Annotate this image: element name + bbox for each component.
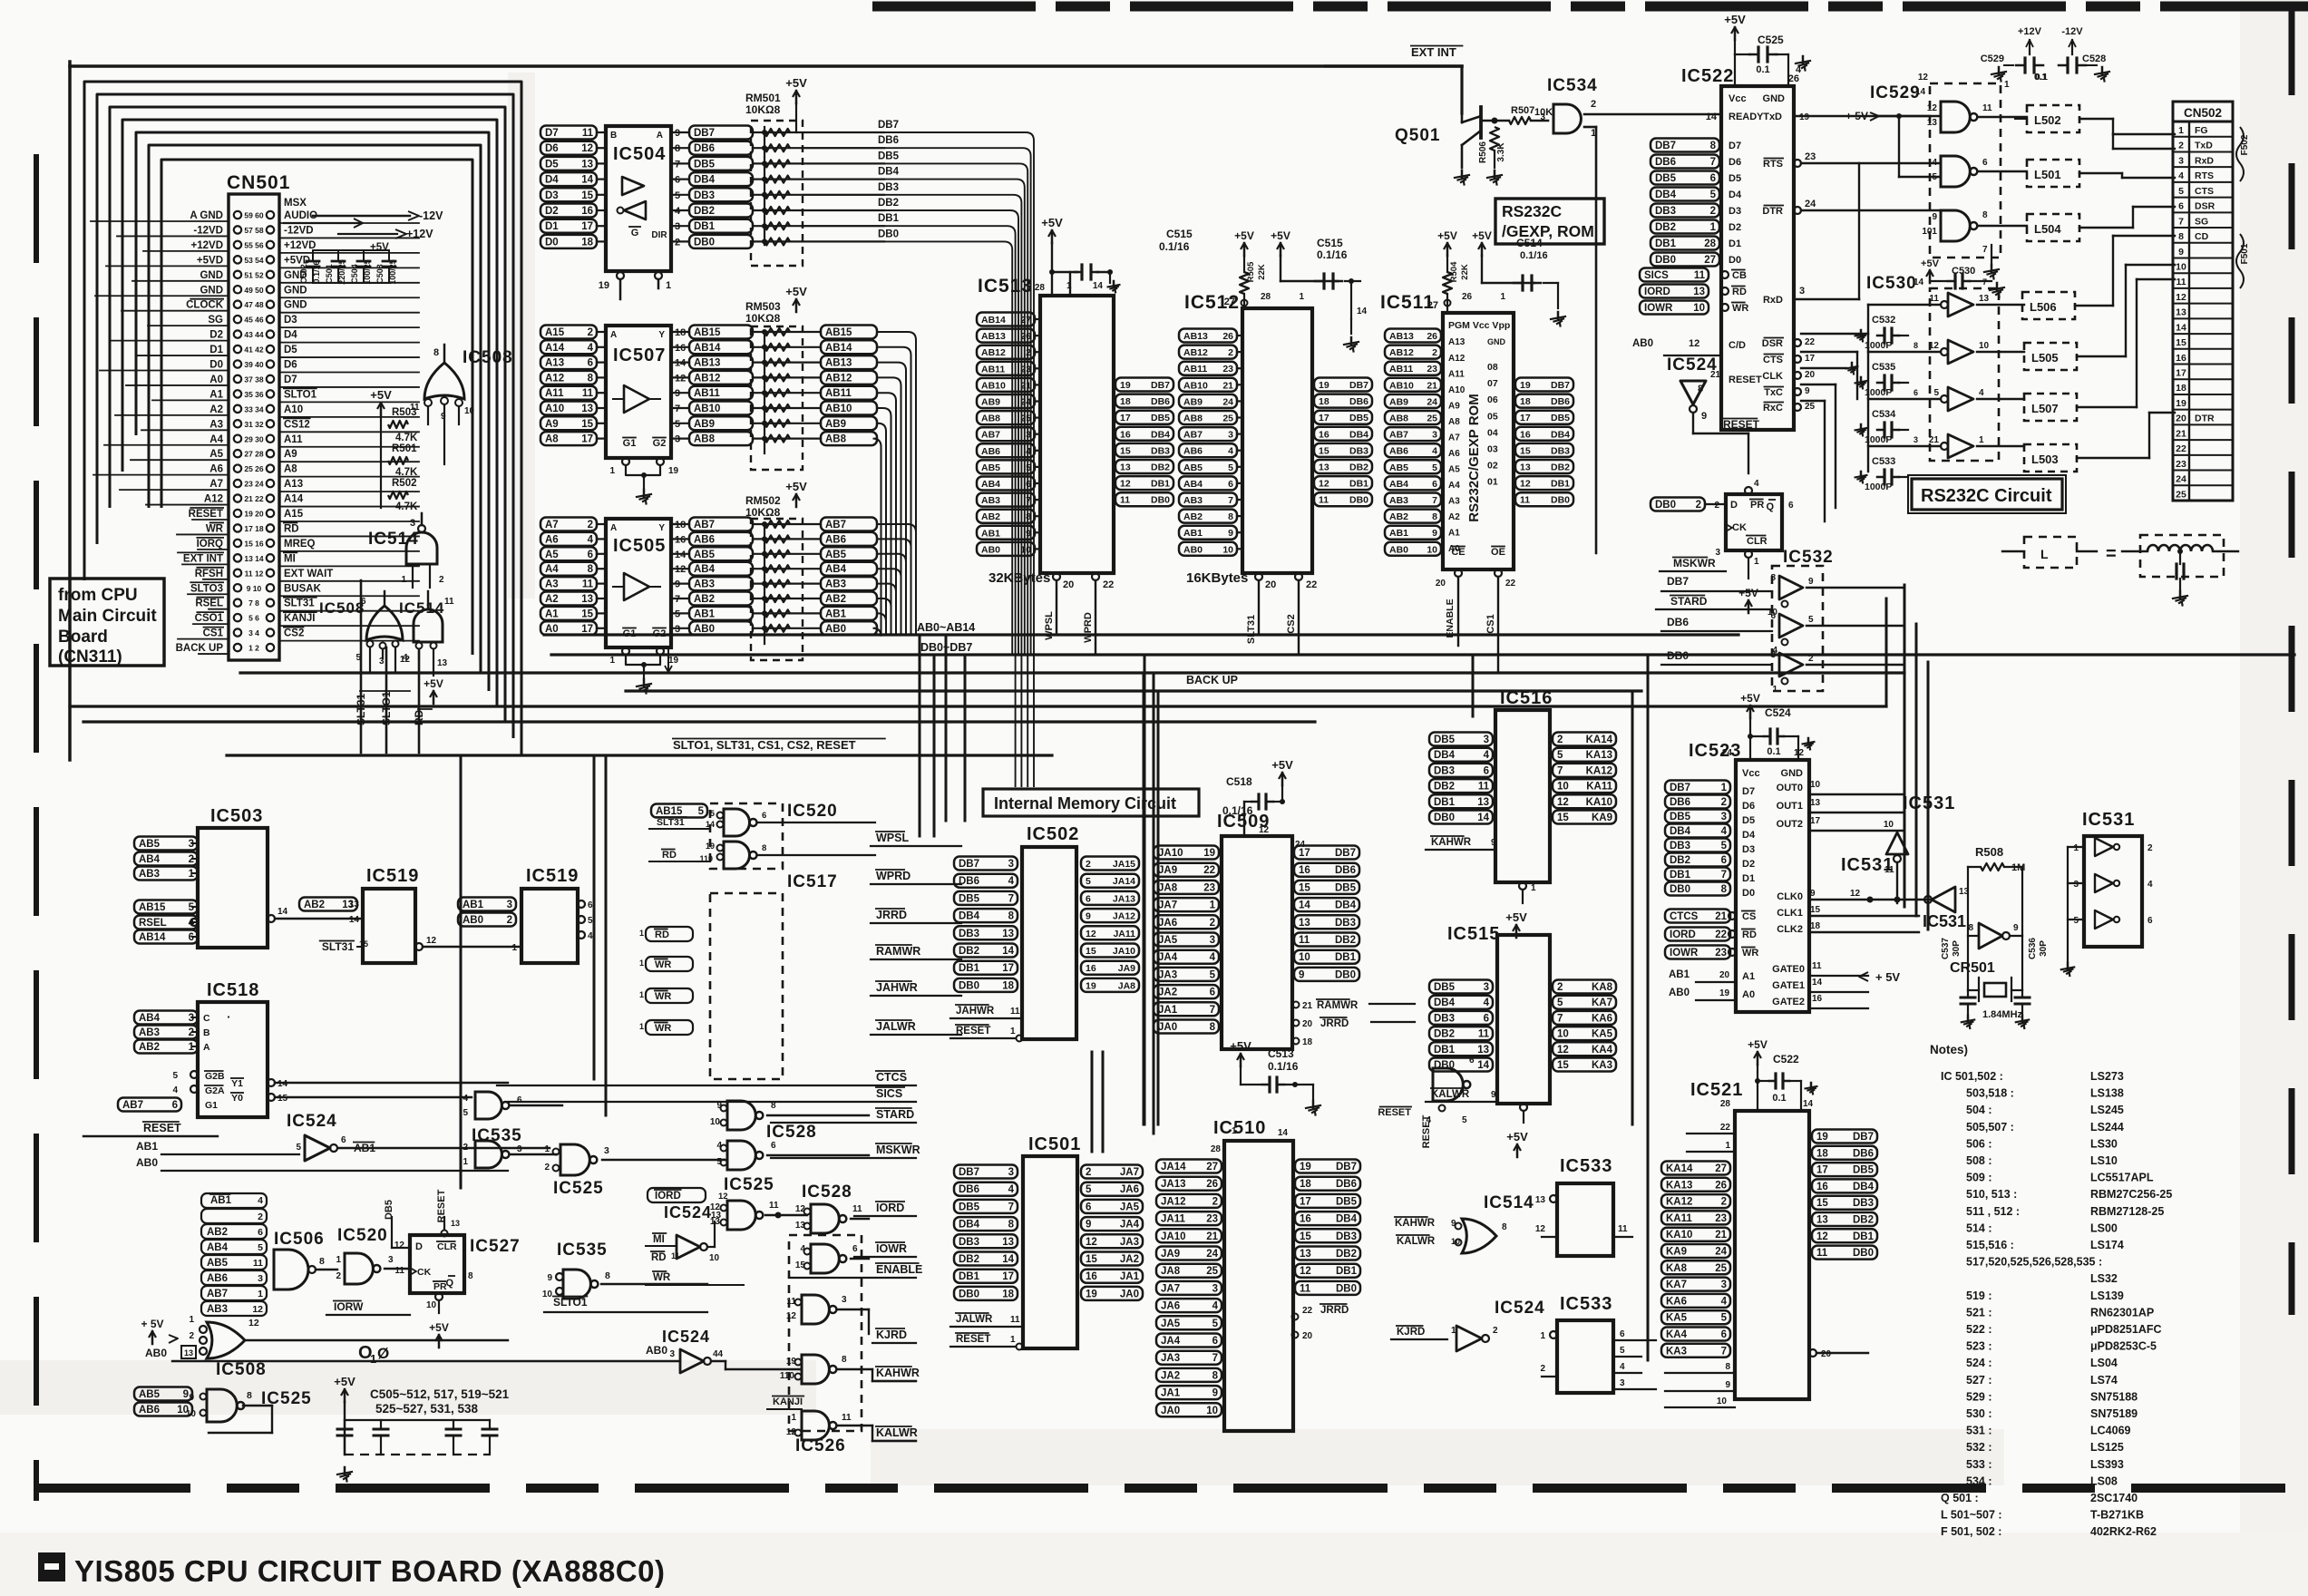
- IC511 pin 17 DB5: [1515, 411, 1573, 424]
- svg-text:21: 21: [1206, 1231, 1218, 1242]
- svg-text:JRRD: JRRD: [1320, 1305, 1349, 1316]
- svg-text:A15: A15: [284, 509, 304, 520]
- svg-text:JA6: JA6: [1158, 918, 1177, 929]
- svg-text:11: 11: [842, 1413, 852, 1423]
- IC513 pin 23 AB11: [977, 362, 1035, 375]
- svg-text:28: 28: [1720, 1099, 1731, 1109]
- svg-text:JAHWR: JAHWR: [956, 1006, 995, 1017]
- svg-text:1: 1: [639, 990, 644, 999]
- svg-text:RESET: RESET: [956, 1026, 990, 1036]
- svg-text:5: 5: [1228, 462, 1233, 473]
- svg-text:5: 5: [698, 806, 705, 817]
- svg-text:IC531: IC531: [1923, 912, 1966, 930]
- svg-text:11: 11: [1299, 935, 1310, 946]
- svg-text:15: 15: [581, 608, 593, 619]
- IC510 pin 5 JA5: [1156, 1316, 1222, 1329]
- svg-text:AB11: AB11: [1389, 364, 1413, 375]
- svg-text:5: 5: [1212, 1319, 1219, 1329]
- IC526 NAND G KAHWR: [802, 1355, 829, 1384]
- svg-text:AB13: AB13: [1183, 331, 1208, 342]
- svg-text:A11: A11: [545, 388, 564, 399]
- svg-text:19: 19: [1300, 1162, 1311, 1173]
- CN502 pin 19: [2173, 394, 2233, 395]
- svg-text:11: 11: [1816, 1248, 1828, 1259]
- svg-text:-12VD: -12VD: [193, 225, 223, 236]
- svg-text:LS125: LS125: [2090, 1441, 2124, 1454]
- svg-text:GATE2: GATE2: [1772, 997, 1805, 1007]
- svg-text:5: 5: [1710, 190, 1717, 200]
- svg-text:110: 110: [780, 1371, 795, 1381]
- svg-text:IC510: IC510: [1213, 1118, 1266, 1138]
- svg-text:JA15: JA15: [1113, 859, 1135, 870]
- svg-text:8: 8: [1228, 511, 1233, 522]
- IC532 buffer 6/5: [1779, 614, 1803, 637]
- IC521 pin 16 DB4: [1812, 1179, 1877, 1192]
- svg-text:1: 1: [258, 1289, 263, 1299]
- IC521 pin 26 KA13: [1661, 1178, 1730, 1192]
- svg-text:21: 21: [1710, 370, 1721, 380]
- IC504 bus transceiver: [606, 126, 671, 271]
- svg-text:8: 8: [1008, 1220, 1015, 1231]
- IC515 pin 2 KA8: [1553, 980, 1616, 994]
- svg-text:+5V: +5V: [785, 76, 807, 90]
- svg-text:1: 1: [1010, 1335, 1016, 1345]
- svg-text:IC507: IC507: [613, 345, 666, 365]
- IC504 pin 15 D3 / 5 DB3: [540, 188, 597, 201]
- svg-text:8: 8: [1210, 1022, 1216, 1033]
- svg-text:26: 26: [1715, 1180, 1727, 1191]
- IC513 pin 21 AB10: [977, 378, 1035, 392]
- svg-text:0.1: 0.1: [1772, 1093, 1786, 1104]
- svg-text:19 20: 19 20: [244, 510, 264, 519]
- CN502 pin 22: [2173, 439, 2233, 441]
- svg-text:AB14: AB14: [981, 315, 1006, 326]
- svg-text:1: 1: [1721, 783, 1728, 793]
- connector CN502: [2173, 102, 2233, 122]
- svg-text:A: A: [657, 131, 663, 141]
- svg-text:9: 9: [1228, 528, 1233, 539]
- scan shading patches: [0, 1360, 816, 1415]
- svg-text:JA9: JA9: [1118, 963, 1135, 974]
- IC509 pin 22 JA9: [1154, 863, 1219, 877]
- svg-text:A3: A3: [545, 579, 559, 590]
- IC509 pin 17 DB7: [1294, 846, 1359, 860]
- IC507 buffer symbol: [624, 385, 649, 413]
- svg-text:IORQ: IORQ: [197, 539, 223, 550]
- svg-text:3: 3: [1721, 812, 1727, 822]
- svg-text:7: 7: [1212, 1353, 1218, 1364]
- svg-text:C513: C513: [1268, 1047, 1294, 1060]
- svg-text:20: 20: [1436, 579, 1446, 589]
- svg-text:1: 1: [639, 929, 644, 938]
- svg-text:D7: D7: [1742, 786, 1755, 797]
- svg-text:4: 4: [172, 1085, 178, 1095]
- IC503 pin 6 AB14: [134, 930, 198, 944]
- svg-text:27: 27: [1224, 297, 1235, 307]
- svg-text:3: 3: [1721, 1280, 1727, 1290]
- svg-text:RD: RD: [284, 523, 299, 534]
- IC510 pin 24 JA9: [1156, 1247, 1222, 1260]
- svg-text:IC534: IC534: [1547, 76, 1598, 95]
- IC511 pin 26 AB13: [1385, 329, 1441, 343]
- IC510 pin 25 JA8: [1156, 1264, 1222, 1278]
- IC509 pin 23 JA8: [1154, 881, 1219, 894]
- svg-text:17: 17: [1816, 1165, 1828, 1176]
- svg-text:6: 6: [2178, 201, 2184, 212]
- IC516 pin 14 DB0: [1429, 811, 1493, 824]
- IC511 pin 8 AB2: [1385, 510, 1441, 523]
- IC521 pin 12 DB1: [1812, 1229, 1877, 1242]
- svg-text:02: 02: [1487, 461, 1498, 472]
- IC522 pin 27 DB0: [1651, 253, 1719, 267]
- svg-text:5: 5: [2178, 186, 2184, 197]
- svg-text:GND: GND: [1781, 768, 1804, 779]
- IC513 pin 6 AB4: [977, 477, 1035, 491]
- svg-text:3: 3: [842, 1295, 847, 1305]
- svg-text:5: 5: [1933, 388, 1939, 398]
- svg-text:IC506: IC506: [274, 1230, 325, 1249]
- svg-text:19: 19: [1203, 848, 1215, 859]
- svg-text:AB0: AB0: [981, 544, 1000, 555]
- svg-text:LS244: LS244: [2090, 1121, 2124, 1134]
- svg-text:2: 2: [1591, 99, 1596, 110]
- svg-text:1: 1: [1540, 1331, 1545, 1341]
- IC512 pin 12 DB1: [1314, 476, 1372, 490]
- svg-text:7: 7: [1210, 1005, 1215, 1016]
- svg-text:SICS: SICS: [1644, 270, 1669, 281]
- svg-text:12: 12: [1120, 479, 1131, 490]
- svg-text:DB6: DB6: [1336, 1179, 1357, 1190]
- svg-text:4: 4: [588, 931, 593, 941]
- svg-text:A2: A2: [1448, 512, 1460, 522]
- svg-text:8: 8: [1968, 923, 1973, 933]
- svg-text:11: 11: [582, 579, 594, 590]
- svg-text:A7: A7: [545, 520, 559, 530]
- svg-text:11: 11: [1478, 782, 1490, 793]
- svg-text:LC5517APL: LC5517APL: [2090, 1172, 2154, 1184]
- svg-text:18: 18: [1002, 1289, 1014, 1299]
- svg-text:WR: WR: [653, 1272, 671, 1283]
- svg-text:11: 11: [1618, 1224, 1628, 1234]
- svg-text:ENABLE: ENABLE: [1445, 598, 1456, 637]
- svg-text:20: 20: [1063, 579, 1074, 590]
- svg-text:24: 24: [1805, 199, 1816, 209]
- svg-text:DB0: DB0: [1434, 813, 1455, 823]
- svg-text:3: 3: [1770, 650, 1776, 660]
- svg-text:LS393: LS393: [2090, 1458, 2124, 1471]
- IC509 pin 15 DB5: [1294, 881, 1359, 894]
- svg-text:DB7: DB7: [1853, 1132, 1874, 1143]
- svg-text:DB6: DB6: [959, 1184, 979, 1195]
- svg-text:A10: A10: [1448, 385, 1466, 395]
- svg-text:DB2: DB2: [1853, 1215, 1874, 1226]
- svg-text:IC527: IC527: [470, 1237, 521, 1256]
- svg-text:CS1: CS1: [203, 628, 224, 639]
- CN502 pin 24: [2173, 470, 2233, 472]
- svg-text:8: 8: [1432, 511, 1437, 522]
- IC517 dashed box (option): [710, 893, 783, 1079]
- svg-text:AB2: AB2: [825, 594, 846, 605]
- svg-text:-12VD: -12VD: [284, 225, 314, 236]
- svg-text:WPRD: WPRD: [876, 870, 911, 882]
- svg-text:19: 19: [1799, 112, 1810, 122]
- svg-text:2: 2: [1721, 797, 1727, 808]
- svg-text:15: 15: [1086, 946, 1096, 957]
- svg-text:6: 6: [588, 358, 593, 369]
- svg-text:8: 8: [247, 1390, 252, 1401]
- NAND IC514 near IC516: [1433, 1068, 1463, 1101]
- svg-text:JA2: JA2: [1161, 1370, 1180, 1381]
- IC516 pin 12 KA10: [1553, 794, 1616, 808]
- svg-text:515,516 :: 515,516 :: [1966, 1239, 2014, 1251]
- svg-text:AB2: AB2: [1389, 511, 1408, 522]
- svg-text:8: 8: [1710, 141, 1717, 151]
- svg-text:A9: A9: [545, 419, 559, 430]
- IC506 input 2: [201, 1209, 267, 1223]
- svg-text:RD: RD: [651, 1252, 667, 1263]
- svg-text:C: C: [203, 1013, 210, 1024]
- svg-text:JA9: JA9: [1161, 1249, 1180, 1260]
- svg-text:11: 11: [1010, 1007, 1020, 1017]
- svg-text:GND: GND: [1763, 93, 1786, 104]
- svg-text:GATE0: GATE0: [1772, 964, 1805, 975]
- IC504 pin 16 D2 / 4 DB2: [540, 204, 597, 218]
- svg-text:6: 6: [762, 811, 766, 821]
- svg-text:1: 1: [544, 1144, 550, 1154]
- svg-text:AB5: AB5: [825, 550, 847, 560]
- svg-text:DB3: DB3: [1434, 1013, 1455, 1024]
- svg-text:13: 13: [1816, 1215, 1828, 1226]
- svg-text:11: 11: [1694, 270, 1706, 281]
- svg-text:12: 12: [1929, 341, 1940, 351]
- svg-text:4: 4: [1432, 446, 1437, 457]
- svg-text:DSR: DSR: [1762, 338, 1783, 349]
- svg-text:17: 17: [581, 221, 593, 232]
- CN502 pin 3: [2173, 151, 2233, 152]
- svg-text:CTCS: CTCS: [876, 1071, 907, 1084]
- svg-text:FG: FG: [2195, 125, 2208, 136]
- svg-text:17: 17: [1002, 963, 1014, 974]
- svg-text:4.7K: 4.7K: [395, 467, 418, 478]
- CN502 pin 13: [2173, 303, 2233, 305]
- svg-text:C529: C529: [1981, 54, 2004, 64]
- CN502 pin 16: [2173, 348, 2233, 350]
- svg-text:+5V: +5V: [1748, 1038, 1768, 1051]
- IC515 pin 6 DB3: [1429, 1011, 1493, 1025]
- svg-text:20: 20: [1302, 1331, 1313, 1341]
- vertical bus drops right of memory: [1472, 655, 1475, 716]
- svg-text:3: 3: [1620, 1378, 1625, 1388]
- IC504 pin 13 D5 / 7 DB5: [540, 157, 597, 170]
- svg-text:KJRD: KJRD: [1397, 1327, 1425, 1338]
- svg-text:9: 9: [1026, 528, 1031, 539]
- svg-text:6: 6: [1620, 1329, 1625, 1339]
- svg-text:IC524: IC524: [664, 1203, 712, 1221]
- svg-text:CD: CD: [2195, 231, 2209, 242]
- bus AB0~AB14 line: [544, 633, 1738, 636]
- svg-text:IC522: IC522: [1681, 66, 1734, 86]
- svg-text:JA14: JA14: [1161, 1162, 1186, 1173]
- svg-text:C515: C515: [1317, 237, 1343, 249]
- CN501 pin row 45 46 SG/D3: [234, 316, 241, 323]
- svg-text:CK: CK: [417, 1267, 432, 1278]
- svg-text:AB7: AB7: [1183, 430, 1203, 441]
- IC501 pin 8 DB4: [954, 1217, 1018, 1231]
- svg-text:505,507 :: 505,507 :: [1966, 1121, 2014, 1134]
- svg-text:5: 5: [1462, 1115, 1467, 1125]
- L504 filter: [2027, 214, 2079, 241]
- svg-text:AB8: AB8: [825, 434, 847, 445]
- svg-text:A9: A9: [284, 449, 297, 460]
- svg-text:D4: D4: [1729, 190, 1742, 200]
- CN501 pin row 41 42 D1/D5: [234, 345, 241, 353]
- IC501 pin 3 DB7: [954, 1165, 1018, 1179]
- svg-text:15: 15: [278, 1094, 288, 1104]
- svg-text:AB4: AB4: [207, 1242, 229, 1253]
- svg-text:18: 18: [581, 237, 593, 248]
- svg-text:RN62301AP: RN62301AP: [2090, 1306, 2154, 1319]
- IC506 input AB2 6: [201, 1224, 267, 1239]
- IC512 pin 7 AB3: [1179, 493, 1237, 507]
- IC512 pin 24 AB9: [1179, 394, 1237, 408]
- svg-text:AB7: AB7: [122, 1100, 143, 1111]
- svg-text:10: 10: [1979, 341, 1990, 351]
- svg-text:21: 21: [1302, 1001, 1313, 1011]
- svg-text:C518: C518: [1226, 775, 1252, 788]
- svg-text:22K: 22K: [1460, 264, 1470, 280]
- IC523 pin 8 DB0: [1665, 882, 1730, 896]
- svg-text:17: 17: [1319, 413, 1329, 423]
- svg-text:524 :: 524 :: [1966, 1357, 1992, 1369]
- IC509 pin 13 DB3: [1294, 915, 1359, 929]
- svg-text:D6: D6: [1729, 157, 1741, 168]
- svg-text:D6: D6: [1742, 801, 1755, 812]
- svg-text:13: 13: [1477, 1045, 1489, 1056]
- svg-text:16: 16: [1299, 865, 1310, 876]
- svg-text:03: 03: [1487, 444, 1498, 455]
- IC513 pin 24 AB9: [977, 394, 1035, 408]
- svg-text:SN75188: SN75188: [2090, 1390, 2138, 1403]
- svg-text:JA5: JA5: [1120, 1202, 1140, 1212]
- svg-text:12: 12: [426, 936, 437, 946]
- svg-text:STARD: STARD: [876, 1108, 914, 1121]
- svg-text:AB0: AB0: [1389, 544, 1408, 555]
- svg-text:7: 7: [1557, 765, 1563, 776]
- svg-text:F502: F502: [2240, 134, 2250, 155]
- svg-text:3: 3: [1212, 1283, 1218, 1294]
- IC523 pin 1 DB7: [1665, 781, 1730, 794]
- svg-text:9: 9: [1212, 1388, 1218, 1399]
- AB15-AB8 lozenges right of RM503 with bends to bus: [821, 326, 877, 339]
- capacitor: [344, 1420, 346, 1429]
- IC509 pin 19 JA10: [1154, 846, 1219, 860]
- svg-text:AB9: AB9: [694, 419, 715, 430]
- IC513 pin 9 AB1: [977, 526, 1035, 540]
- svg-text:1: 1: [2178, 125, 2184, 136]
- IC522 pin 28 DB1: [1651, 237, 1719, 250]
- CN501 pin row 9 10 SLTO3/BUSAK: [234, 584, 241, 591]
- IC521 pin 6 KA4: [1661, 1328, 1730, 1341]
- svg-text:511 , 512 :: 511 , 512 :: [1966, 1205, 2020, 1218]
- svg-text:D2: D2: [209, 330, 223, 341]
- svg-text:A0: A0: [209, 375, 223, 385]
- svg-text:15: 15: [1319, 445, 1329, 456]
- svg-text:14: 14: [1706, 112, 1718, 122]
- svg-text:11: 11: [1300, 1283, 1311, 1294]
- svg-text:534 :: 534 :: [1966, 1474, 1992, 1487]
- svg-text:21: 21: [2176, 428, 2186, 439]
- svg-text:IC502: IC502: [1027, 824, 1079, 844]
- svg-text:D5: D5: [1742, 815, 1755, 826]
- svg-text:27: 27: [1206, 1162, 1218, 1173]
- svg-text:AB13: AB13: [1389, 331, 1414, 342]
- svg-text:C504: C504: [350, 264, 359, 284]
- svg-text:A6: A6: [545, 534, 559, 545]
- svg-text:AB1: AB1: [981, 528, 1000, 539]
- svg-text:1: 1: [2073, 843, 2079, 853]
- svg-text:2SC1740: 2SC1740: [2090, 1492, 2138, 1504]
- svg-text:504 :: 504 :: [1966, 1104, 1992, 1116]
- svg-text:6: 6: [517, 1095, 522, 1105]
- svg-text:JA9: JA9: [1158, 865, 1177, 876]
- svg-text:PR: PR: [1750, 500, 1764, 511]
- svg-text:1: 1: [1754, 557, 1759, 567]
- svg-text:15: 15: [1299, 882, 1310, 893]
- svg-text:AB7: AB7: [825, 520, 846, 530]
- svg-text:IC531: IC531: [1903, 793, 1955, 813]
- svg-text:IC523: IC523: [1689, 741, 1741, 761]
- svg-text:AB0: AB0: [145, 1347, 167, 1359]
- svg-text:AB0: AB0: [646, 1344, 667, 1357]
- CN502 pin 18: [2173, 378, 2233, 380]
- svg-text:-12V: -12V: [2061, 26, 2083, 37]
- IC515 pin 14 DB0: [1429, 1058, 1493, 1072]
- svg-text:IORD: IORD: [1670, 929, 1696, 940]
- svg-text:5: 5: [1432, 462, 1437, 473]
- svg-text:17: 17: [1810, 816, 1821, 826]
- svg-text:14: 14: [581, 175, 593, 186]
- svg-text:31 32: 31 32: [244, 420, 264, 429]
- svg-text:1: 1: [1210, 900, 1216, 911]
- svg-text:LS273: LS273: [2090, 1070, 2124, 1083]
- svg-text:13: 13: [1299, 918, 1310, 929]
- svg-text:(CN311): (CN311): [58, 647, 122, 667]
- IC512 pin 10 AB0: [1179, 542, 1237, 556]
- svg-text:12: 12: [400, 655, 411, 665]
- svg-text:IORD: IORD: [655, 1191, 681, 1202]
- IC501 pin 16 JA1: [1081, 1270, 1143, 1283]
- svg-text:12: 12: [581, 143, 593, 154]
- svg-text:CTS: CTS: [1763, 355, 1783, 365]
- IC509 pin 16 DB6: [1294, 863, 1359, 877]
- svg-text:7: 7: [1008, 893, 1014, 904]
- svg-text:20: 20: [2176, 414, 2186, 424]
- svg-text:Notes): Notes): [1930, 1043, 1968, 1056]
- svg-text:D2: D2: [1729, 222, 1741, 233]
- svg-text:JA3: JA3: [1161, 1353, 1180, 1364]
- IC501 pin 17 DB1: [954, 1270, 1018, 1283]
- svg-text:A11: A11: [284, 434, 303, 445]
- svg-text:AB4: AB4: [825, 564, 847, 575]
- svg-text:14: 14: [1803, 1099, 1814, 1109]
- MSX AUDIO arrow: [284, 222, 361, 224]
- frame line left: [68, 62, 72, 760]
- svg-text:49 50: 49 50: [244, 286, 264, 295]
- svg-text:25: 25: [1715, 1263, 1727, 1274]
- svg-text:DB2: DB2: [1551, 462, 1570, 473]
- IC513 pin 3 AB7: [977, 427, 1035, 441]
- svg-text:531 :: 531 :: [1966, 1425, 1992, 1437]
